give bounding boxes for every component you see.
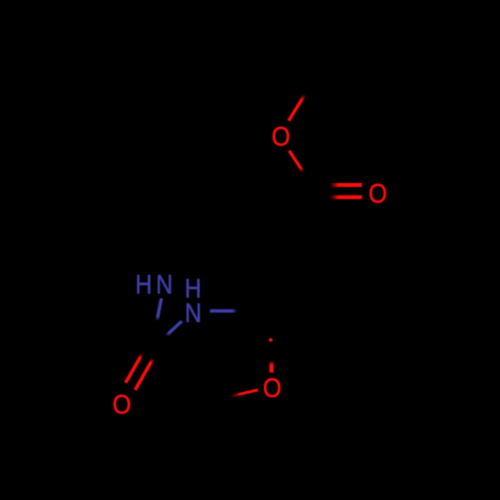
wire C3-O stereo dash bar [269,361,273,373]
node N of second NH label [185,299,202,329]
node O ester oxygen label [272,122,291,152]
wire bond O-CH3 upper half-bond [289,95,305,121]
node H of second NH label [185,274,202,304]
svg-text:O: O [263,374,282,404]
node H of HN amine label [135,270,152,300]
wire C=O double bond lower line [330,195,363,199]
node O ring oxygen label [263,374,282,404]
wire HN-C half-bond [157,298,162,321]
node N of HN amine label [156,270,173,300]
wire amide C=O double bond right line [135,358,153,390]
node O amide oxygen label [112,390,131,420]
node O carbonyl oxygen label [368,179,387,209]
wire C=O double bond upper line [330,183,363,187]
wire amide C=O double bond left line [126,354,143,383]
svg-text:N: N [185,299,202,329]
svg-text:H: H [135,270,152,300]
wire O-CH2 ring half-bond [231,390,259,396]
svg-text:N: N [156,270,173,300]
wire bond O-C(=O) half-bond [289,151,303,173]
svg-text:O: O [112,390,131,420]
wire N-C(=O) half-bond [166,321,182,336]
wire N-C3 half-bond [210,309,237,312]
svg-text:O: O [368,179,387,209]
svg-text:O: O [272,122,291,152]
wire C3-O stereo dash dot [269,338,273,342]
